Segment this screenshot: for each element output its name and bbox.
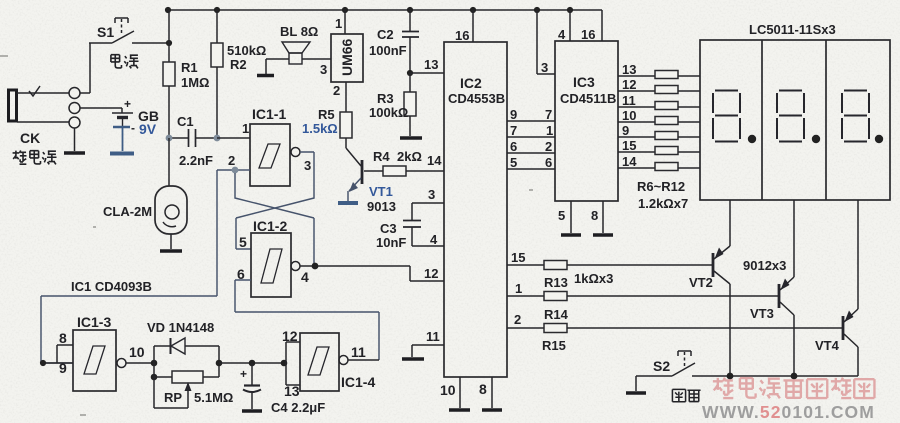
node: RP left (151, 374, 158, 381)
svg-text:R1: R1 (181, 60, 198, 75)
resistor R10 row (IC3 pin9) (618, 123, 700, 140)
wire: VT2 collector down (729, 284, 731, 376)
transistor VT3 (750, 277, 794, 321)
svg-text:7: 7 (510, 123, 517, 138)
wire: R14 to VT3 base (567, 295, 778, 297)
svg-text:+: + (240, 367, 247, 381)
svg-text:5: 5 (558, 208, 565, 223)
svg-text:2: 2 (228, 153, 235, 168)
wire: C1 node to IC1-1 pin1 (217, 137, 250, 139)
capacitor C1 (169, 114, 217, 168)
svg-text:1: 1 (242, 121, 249, 136)
resistor R13 (544, 261, 568, 291)
svg-text:IC1 CD4093B: IC1 CD4093B (71, 279, 152, 294)
svg-text:4: 4 (301, 269, 309, 285)
svg-text:4: 4 (430, 232, 438, 247)
transistor VT1 9013 (338, 138, 396, 214)
node: rail junction at UM66 pin1 (342, 7, 348, 13)
svg-text:R15: R15 (542, 338, 566, 353)
wire: jack sleeve to ring 3 (17, 121, 69, 123)
wire: IC2 pin15 to R13 (507, 264, 544, 266)
wire: top supply rail (168, 9, 602, 11)
jack plug hook contact (29, 86, 40, 96)
node: C4 top (249, 360, 256, 367)
svg-text:10: 10 (622, 108, 636, 123)
svg-text:-: - (131, 121, 135, 135)
svg-text:10nF: 10nF (376, 235, 406, 250)
gate IC1-1 (228, 106, 311, 186)
IC3 CD4511B (555, 41, 618, 201)
wire: node to crystal (168, 138, 170, 186)
wire: ring3 to ground (74, 128, 76, 151)
svg-text:13: 13 (622, 62, 636, 77)
svg-text:100kΩ: 100kΩ (369, 105, 408, 120)
svg-text:11: 11 (351, 344, 366, 360)
wire: rail to IC3 pin3 (537, 10, 555, 74)
7-segment digit 2 (777, 91, 804, 142)
node: C1 right (gray) (214, 135, 221, 142)
svg-text:VT2: VT2 (689, 275, 713, 290)
ground below R3 (400, 136, 422, 140)
svg-text:11: 11 (622, 93, 636, 108)
transistor VT2 (689, 246, 730, 290)
svg-text:2kΩ: 2kΩ (397, 149, 422, 164)
svg-text:R5: R5 (318, 107, 335, 122)
svg-text:9013: 9013 (367, 199, 396, 214)
svg-text:IC1-4: IC1-4 (341, 374, 375, 390)
svg-text:VT1: VT1 (369, 184, 393, 199)
resistor R6 row (IC3 pin13) (618, 62, 700, 79)
svg-text:12: 12 (622, 77, 636, 92)
wire: IC2 pin1 to R14 (507, 295, 544, 297)
svg-text:C4 2.2μF: C4 2.2μF (271, 400, 325, 415)
svg-text:WWW.520101.COM: WWW.520101.COM (702, 402, 875, 422)
wire: rail to UM66 pin1 (344, 10, 346, 34)
wire: IC1-3 input bracket (41, 345, 73, 363)
wire: IC2 pin2 to R15 (507, 327, 544, 329)
svg-text:S2: S2 (653, 358, 670, 374)
svg-text:IC1-3: IC1-3 (77, 314, 111, 330)
capacitor C3 on IC2 pins 3-4 (376, 187, 444, 250)
ground at IC2 pin11 (402, 357, 424, 361)
decimal point digit 1 (748, 135, 756, 143)
svg-text:6: 6 (510, 139, 517, 154)
svg-text:C2: C2 (377, 27, 394, 42)
svg-text:9: 9 (622, 123, 629, 138)
svg-text:R13: R13 (544, 275, 568, 290)
display module LC5011-11Sx3 (700, 22, 890, 200)
svg-text:15: 15 (622, 138, 636, 153)
svg-text:16: 16 (455, 28, 469, 43)
svg-text:3: 3 (304, 158, 311, 173)
svg-text:2: 2 (545, 139, 552, 154)
wire: IC2-IC3 bus row4 pins 5/6 (507, 168, 555, 170)
wire: IC2-IC3 bus row2 pins 7/1 (507, 136, 555, 138)
svg-text:UM66: UM66 (339, 38, 355, 76)
capacitor C2 (369, 10, 419, 73)
node: rail junction at IC3 pin3 (534, 7, 540, 13)
svg-text:IC1-2: IC1-2 (253, 218, 287, 234)
resistor R15 (542, 324, 567, 354)
svg-text:3: 3 (541, 60, 548, 75)
svg-text:CD4511B: CD4511B (560, 91, 616, 106)
wire: node to IC2 pin13 (410, 72, 444, 74)
svg-text:8: 8 (59, 330, 67, 346)
wire: IC1-1 pin2 cross-couple to IC1-2 output (235, 173, 314, 266)
wire: display common 2 down (793, 200, 795, 277)
svg-text:IC1-1: IC1-1 (252, 106, 286, 122)
node: S1 to R1 junction (166, 40, 172, 46)
svg-text:2.2nF: 2.2nF (179, 153, 213, 168)
gate IC1-2 (237, 218, 309, 297)
svg-text:13: 13 (284, 383, 300, 399)
wire: node column left (153, 363, 155, 377)
svg-text:IC2: IC2 (460, 75, 482, 91)
resistor R14 (544, 292, 569, 323)
wire: IC2-IC3 bus row1 pins 9/7 (507, 120, 555, 122)
wire: IC1-4 output (348, 359, 379, 361)
diode VD 1N4148 (147, 320, 219, 363)
svg-text:1: 1 (546, 123, 553, 138)
resistor R9 row (IC3 pin10) (618, 108, 700, 125)
7-segment digit 3 (842, 91, 869, 142)
watermark: 家电维修资料网 (713, 377, 875, 398)
wire: VT4 collector down (857, 347, 859, 376)
decimal point digit 2 (812, 135, 820, 143)
svg-text:2: 2 (514, 312, 521, 327)
potentiometer RP 5.1M (154, 363, 233, 408)
gate IC1-4 (282, 328, 375, 399)
wire: R15 to VT4 base (567, 327, 842, 329)
svg-text:12: 12 (424, 266, 438, 281)
node: rail junction at R2 column (214, 7, 220, 13)
wire: pin2 stub (235, 169, 250, 171)
svg-text:CLA-2M: CLA-2M (103, 204, 152, 219)
IC3 pin8 ground (602, 201, 604, 233)
battery GB 9V (110, 97, 159, 154)
jack contact ring 1 (69, 88, 80, 99)
wire: IC1-1 pin2 node to IC1-3 inputs (41, 170, 235, 363)
svg-text:1: 1 (335, 16, 342, 31)
wire: speaker to UM66 pin3 (302, 58, 331, 60)
resistor R8 row (IC3 pin11) (618, 93, 700, 110)
switch S2 (636, 351, 858, 376)
wire: jack ring2 to battery positive (80, 108, 122, 113)
svg-text:CD4553B: CD4553B (448, 91, 505, 106)
wire: VT1 base to R4 (364, 170, 383, 172)
gate IC1-3 (59, 314, 126, 391)
decimal point digit 3 (875, 135, 883, 143)
node: C1 left (gray) (166, 135, 173, 142)
wire: rail corner to IC3 pin16 (601, 10, 603, 41)
node: rail junction at C2 (407, 7, 413, 13)
node: IC1-1 pin2 (gray) (232, 167, 239, 174)
IC2 pin8 ground (491, 377, 493, 408)
crystal CLA-2M (103, 186, 187, 251)
svg-text:C1: C1 (177, 114, 194, 129)
resistor R11 row (IC3 pin15) (618, 138, 700, 155)
svg-text:1: 1 (515, 281, 522, 296)
svg-text:R4: R4 (373, 149, 390, 164)
svg-text:13: 13 (424, 57, 438, 72)
svg-text:2: 2 (333, 83, 340, 98)
capacitor C4 (240, 363, 325, 415)
svg-text:5.1MΩ: 5.1MΩ (194, 390, 233, 405)
svg-text:4: 4 (558, 27, 566, 42)
wire: IC1-3 output to VD node (126, 362, 154, 364)
svg-text:VD 1N4148: VD 1N4148 (147, 320, 214, 335)
node: IC1-2 output junction (312, 263, 319, 270)
svg-text:R6~R12: R6~R12 (637, 179, 685, 194)
wire: R2 to C1-right node (216, 67, 218, 138)
svg-text:10: 10 (440, 382, 456, 398)
svg-text:7: 7 (545, 107, 552, 122)
resistor R4 (373, 149, 422, 176)
wire: R4 to IC2 pin14 (406, 170, 444, 172)
wire: display common 3 down (857, 200, 859, 309)
IC U1 UM66 (320, 16, 363, 98)
svg-text:10: 10 (129, 344, 145, 360)
wire: VT3 collector down (793, 315, 795, 376)
svg-text:IC3: IC3 (573, 74, 595, 90)
svg-text:S1: S1 (97, 24, 114, 40)
svg-text:8: 8 (591, 208, 598, 223)
wire: UM66 pin2 to R5 (345, 82, 347, 112)
wire: IC1-2 pin6 to IC1-4 output (235, 280, 379, 360)
wire: rail to IC2 pin16 (472, 10, 474, 42)
connector CK jack body (9, 90, 17, 121)
7-segment digit 1 (713, 91, 740, 142)
jack contact ring 2 (69, 103, 80, 114)
svg-text:12: 12 (282, 328, 298, 344)
wire: rail to IC3 pin4 (569, 10, 571, 41)
svg-text:1.5kΩ: 1.5kΩ (302, 121, 338, 136)
switch S1 (89, 18, 169, 43)
IC3 pin5 ground (570, 201, 572, 233)
ground below jack (64, 151, 85, 155)
resistor R5 (302, 107, 352, 138)
speaker BL 8ohm (257, 24, 318, 76)
svg-text:9012x3: 9012x3 (743, 258, 786, 273)
node: C2/R3/pin13 junction (407, 70, 413, 76)
svg-text:+: + (124, 97, 131, 111)
transistor VT4 (815, 309, 858, 353)
node: rail junction at IC3 pin4 (567, 7, 573, 13)
wire: IC2 pin11 to ground (412, 345, 444, 357)
label: 观察 (observe) (672, 389, 700, 401)
node: IC1-4 input bracket (281, 360, 288, 367)
svg-text:5: 5 (239, 234, 247, 250)
IC2 CD4553B (444, 28, 507, 377)
resistor R3 (369, 73, 416, 136)
wire: VD node to IC1-4 input (219, 362, 286, 364)
node: VT2 collector on S2 rail (727, 373, 734, 380)
svg-text:14: 14 (622, 154, 637, 169)
node: VT3 collector on S2 rail (791, 373, 798, 380)
svg-text:510kΩ: 510kΩ (227, 43, 266, 58)
resistor R12 row (IC3 pin14) (618, 154, 700, 171)
wire: IC1-2 output to IC2 pin12 (300, 266, 444, 281)
svg-text:15: 15 (511, 250, 525, 265)
jack contact ring 3 (69, 117, 80, 128)
node: IC1-3 input junction (40, 360, 46, 366)
label: 电源 (power) (111, 54, 139, 68)
svg-text:3: 3 (428, 187, 435, 202)
svg-text:BL 8Ω: BL 8Ω (280, 24, 318, 39)
svg-text:9V: 9V (139, 121, 157, 137)
svg-text:11: 11 (426, 329, 440, 344)
scan speck artifacts (0, 56, 533, 415)
wire: rail to S1 and down to R1 (168, 10, 170, 62)
node: VD right (216, 360, 223, 367)
svg-text:5: 5 (510, 155, 517, 170)
svg-text:R14: R14 (544, 307, 569, 322)
svg-text:14: 14 (427, 153, 442, 168)
label: 外电源 (ext. power) (13, 150, 57, 164)
svg-text:VT4: VT4 (815, 338, 840, 353)
wire: rail down to R2 (216, 10, 218, 43)
svg-text:RP: RP (164, 390, 182, 405)
svg-text:1.2kΩx7: 1.2kΩx7 (638, 196, 688, 211)
svg-text:3: 3 (320, 62, 327, 77)
wire: IC1-1 output cross-couple to IC1-2 input (236, 152, 314, 249)
wire: R1 to C1 node (168, 86, 170, 138)
svg-text:C3: C3 (380, 221, 397, 236)
svg-text:100nF: 100nF (369, 43, 407, 58)
svg-text:1kΩx3: 1kΩx3 (574, 271, 613, 286)
node: rail junction at R1 column (165, 7, 171, 13)
wire: R13 to VT2 base (567, 264, 712, 266)
wire: jack tip contact to S1 (17, 43, 90, 93)
node: VD left (151, 360, 158, 367)
resistor R2 (211, 43, 266, 72)
resistor R1 (163, 60, 209, 90)
svg-text:16: 16 (581, 27, 595, 42)
svg-text:CK: CK (20, 130, 40, 146)
svg-text:R3: R3 (377, 91, 394, 106)
svg-text:R2: R2 (230, 57, 247, 72)
svg-text:6: 6 (545, 155, 552, 170)
svg-text:VT3: VT3 (750, 306, 774, 321)
svg-text:8: 8 (479, 381, 487, 397)
svg-text:LC5011-11Sx3: LC5011-11Sx3 (749, 22, 836, 37)
wire: display common 1 down (729, 200, 731, 246)
wire: IC2-IC3 bus row3 pins 6/2 (507, 152, 555, 154)
ground at S2 (635, 376, 637, 391)
node: rail junction at IC2 pin16 (470, 7, 476, 13)
IC2 pin10 ground (459, 377, 461, 408)
svg-text:1MΩ: 1MΩ (181, 75, 209, 90)
resistor R7 row (IC3 pin12) (618, 77, 700, 94)
svg-text:9: 9 (510, 107, 517, 122)
